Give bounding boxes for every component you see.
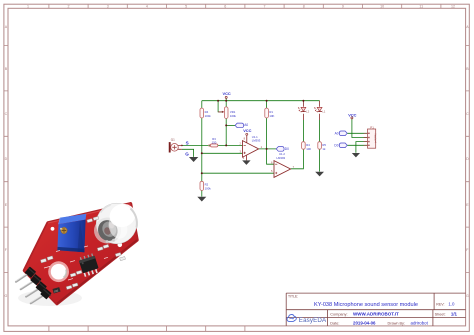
svg-text:WWW.ADRIROBOT.IT: WWW.ADRIROBOT.IT — [353, 312, 399, 317]
svg-text:1: 1 — [27, 5, 29, 9]
net port D0 (at U1.1 out) — [276, 147, 289, 152]
svg-text:D: D — [5, 157, 8, 161]
svg-text:100k: 100k — [205, 114, 212, 118]
ground (R2) — [197, 197, 206, 202]
svg-text:Header-4: Header-4 — [374, 133, 377, 144]
svg-text:S: S — [186, 140, 189, 145]
svg-text:A0: A0 — [335, 132, 339, 136]
svg-text:5: 5 — [185, 5, 187, 9]
wire pin3 — [202, 152, 243, 154]
op-amp U1.2 LM393 — [271, 152, 295, 177]
svg-text:L1: L1 — [322, 109, 326, 113]
svg-text:2: 2 — [68, 5, 70, 9]
svg-text:G: G — [5, 294, 8, 298]
svg-text:2019-04-06: 2019-04-06 — [353, 321, 376, 326]
svg-text:9: 9 — [342, 5, 344, 9]
ground (P1) — [352, 153, 360, 157]
svg-text:LM393: LM393 — [277, 156, 286, 160]
svg-text:1: 1 — [261, 145, 263, 149]
svg-text:10: 10 — [380, 5, 384, 9]
wire bottom to pin5 — [202, 172, 274, 174]
ground (mic G) — [189, 157, 198, 162]
svg-text:KY-038 Microphone sound sensor: KY-038 Microphone sound sensor module — [314, 302, 418, 308]
svg-text:Date:: Date: — [330, 322, 339, 326]
LED L2 — [298, 107, 310, 113]
svg-text:LM393: LM393 — [252, 138, 261, 142]
svg-text:100k: 100k — [230, 114, 237, 118]
op-amp U1.1 LM393 — [240, 135, 263, 161]
svg-text:A: A — [466, 25, 469, 29]
svg-text:7: 7 — [264, 5, 266, 9]
svg-text:12: 12 — [451, 5, 455, 9]
svg-text:10K: 10K — [306, 147, 311, 151]
resistor R1 10K — [265, 108, 275, 118]
svg-text:D: D — [466, 157, 469, 161]
connector P1 Header-4 — [364, 125, 377, 148]
svg-text:E: E — [5, 203, 8, 207]
svg-text:4: 4 — [243, 156, 245, 160]
svg-text:1/1: 1/1 — [451, 312, 458, 317]
wire mic S to pin2 — [182, 144, 243, 146]
junction dots — [181, 100, 304, 175]
wire P1 GND — [356, 142, 368, 153]
svg-text:Sheet:: Sheet: — [435, 312, 446, 316]
resistor R3 150 — [209, 137, 218, 147]
svg-text:B: B — [466, 67, 469, 71]
wire P1 VCC — [352, 119, 368, 138]
svg-text:D0: D0 — [285, 147, 289, 151]
svg-text:1.0: 1.0 — [448, 302, 455, 307]
resistor R6 10K (LED L2 driver) — [302, 142, 312, 151]
svg-text:Q1: Q1 — [171, 137, 175, 141]
svg-text:1k: 1k — [322, 147, 326, 151]
net port A0 (at VR1) — [235, 123, 248, 128]
svg-text:D0: D0 — [334, 144, 338, 148]
svg-text:B: B — [5, 67, 8, 71]
TITLEBLOCK — [286, 293, 465, 326]
svg-text:VCC: VCC — [348, 112, 356, 117]
wire out1 to D0 — [259, 148, 277, 150]
VCC flag (top rail) — [222, 91, 230, 98]
resistor R4 100k — [200, 108, 211, 118]
svg-text:C: C — [5, 112, 8, 116]
svg-text:VCC: VCC — [222, 91, 230, 96]
svg-text:8: 8 — [244, 136, 246, 140]
resistor R2 100k — [200, 181, 211, 190]
wire VR1 wiper stub — [218, 101, 223, 112]
svg-text:100k: 100k — [205, 186, 212, 190]
ground (R5) — [315, 172, 324, 177]
svg-text:G: G — [466, 294, 469, 298]
VCC flag (U1.1 pin8) — [243, 128, 251, 135]
svg-text:TITLE:: TITLE: — [288, 294, 298, 298]
net port A0 (at P1) — [335, 131, 348, 136]
wire R4 left branch — [201, 101, 203, 197]
svg-text:REV:: REV: — [436, 302, 444, 306]
svg-text:adrirobot: adrirobot — [411, 321, 429, 326]
wire A0 stub — [226, 124, 235, 126]
wire out1 to pin6 — [267, 149, 274, 164]
svg-text:11: 11 — [419, 5, 423, 9]
svg-text:G: G — [185, 152, 189, 157]
svg-text:6: 6 — [224, 5, 226, 9]
wire VCC stub — [225, 98, 227, 101]
ground (U1.1 pin4) — [242, 160, 250, 165]
svg-text:L2: L2 — [306, 109, 310, 113]
svg-text:150: 150 — [212, 140, 217, 144]
svg-text:F: F — [5, 248, 8, 252]
wire P1 A0 row — [347, 132, 367, 134]
wire P1 D0 row — [347, 144, 367, 146]
wire VCC top rail — [202, 100, 320, 102]
svg-text:6: 6 — [271, 160, 273, 164]
svg-text:VCC: VCC — [243, 128, 251, 133]
LED L1 — [314, 107, 326, 113]
svg-text:5: 5 — [271, 169, 273, 173]
svg-text:EasyEDA: EasyEDA — [299, 317, 327, 324]
resistor R5 1k — [318, 142, 327, 151]
svg-text:Company:: Company: — [330, 312, 347, 316]
svg-text:3: 3 — [240, 149, 242, 153]
svg-text:4: 4 — [146, 5, 148, 9]
svg-text:C: C — [466, 112, 469, 116]
VCC flag (P1) — [348, 112, 356, 119]
svg-text:A: A — [5, 25, 8, 29]
microphone Q1 — [170, 137, 182, 152]
net port D0 (at P1) — [334, 143, 347, 148]
svg-text:E: E — [466, 203, 469, 207]
potentiometer VR1 100k — [218, 107, 236, 119]
EasyEDA logo — [287, 315, 327, 324]
svg-text:3: 3 — [107, 5, 109, 9]
svg-text:P1: P1 — [370, 125, 374, 129]
wire R1 branch — [266, 101, 268, 149]
svg-text:8: 8 — [303, 5, 305, 9]
svg-text:10K: 10K — [269, 114, 274, 118]
wire VR1 branch — [225, 101, 227, 146]
wire LED L2 branch — [291, 120, 304, 169]
wire LED L1 branch — [319, 120, 321, 172]
svg-text:Drawn By:: Drawn By: — [388, 322, 406, 326]
wire mic G — [182, 149, 194, 157]
svg-text:A0: A0 — [244, 123, 248, 127]
